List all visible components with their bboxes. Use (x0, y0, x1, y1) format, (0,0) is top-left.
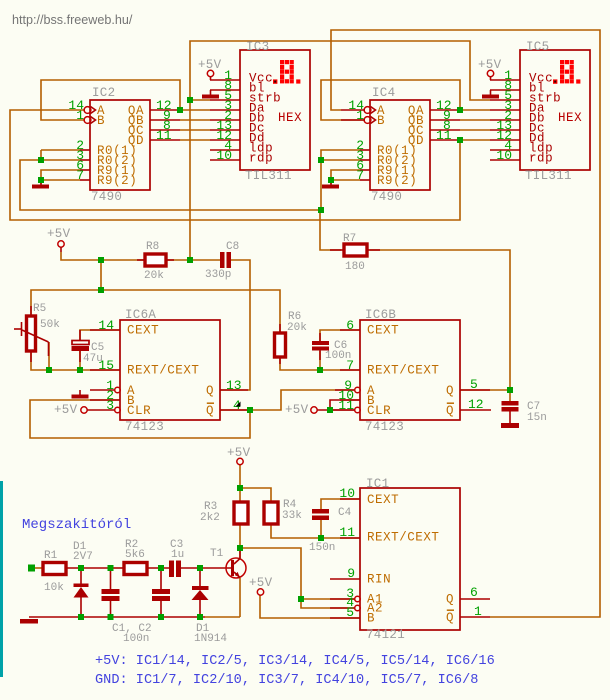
wire net input row y=568 (35, 567, 42, 569)
svg-text:7490: 7490 (371, 190, 402, 204)
IC4 pin numbers (348, 98, 451, 183)
wire net T1 collector trigger: R3 bottom, x=301, A1 A2 (239, 524, 241, 558)
wire net REXT IC6A: R5 bottom, wiper, C5, pin 15 (31, 352, 120, 370)
junction D1 top (197, 565, 203, 571)
svg-text:http://bss.freeweb.hu/: http://bss.freeweb.hu/ (12, 13, 133, 27)
wire R4 branch (240, 488, 271, 501)
svg-text:HEX: HEX (558, 111, 582, 125)
wire net bus y=290: R5 top to R6 top (31, 290, 280, 333)
IC2 pin B bubble and wedge (84, 117, 95, 124)
wire IC4 R0(1) seg (321, 150, 360, 210)
IC6B pin A bubble (355, 387, 361, 393)
wire row QB-Db left (180, 119, 210, 121)
zener diode D1 2V7 (73, 541, 93, 617)
resistor R1 10k (43, 550, 66, 594)
IC5 TIL311 (520, 40, 590, 183)
svg-text:10: 10 (496, 148, 512, 163)
+5V supply R3 R4 (227, 446, 251, 465)
IC3 7segment display (273, 60, 300, 84)
junction QD IC4 (457, 137, 463, 143)
svg-text:IC6A: IC6A (125, 308, 156, 322)
wire C1 node to R2 (110, 567, 123, 569)
capacitor C2 100n (152, 568, 170, 617)
svg-text:C8: C8 (226, 241, 239, 253)
junction IC2 R9 (38, 177, 44, 183)
wire R1 to zener (67, 567, 110, 569)
+5V supply IC1 B (249, 576, 273, 595)
svg-text:CEXT: CEXT (127, 324, 159, 338)
svg-text:B: B (97, 114, 105, 128)
junction C1 bottom (108, 614, 114, 620)
svg-text:10: 10 (339, 486, 355, 501)
IC3 pin stubs (210, 80, 240, 160)
svg-text:C4: C4 (338, 507, 352, 519)
svg-text:IC5: IC5 (526, 40, 549, 54)
svg-text:Q: Q (206, 384, 214, 398)
svg-text:9: 9 (347, 566, 355, 581)
wire IC2 R0(2) seg (41, 159, 80, 161)
capacitor C4 150n (309, 507, 352, 554)
svg-text:Q: Q (206, 404, 214, 418)
IC6A pin stubs (87, 330, 249, 410)
IC1 74121 (360, 477, 460, 642)
svg-text:10: 10 (216, 148, 232, 163)
wire C4 stem bottom (320, 520, 322, 538)
svg-text:7: 7 (356, 168, 364, 183)
svg-text:HEX: HEX (278, 111, 302, 125)
wire R8 to C8 (166, 259, 220, 261)
svg-text:Q: Q (446, 404, 454, 418)
svg-text:100n: 100n (123, 633, 149, 645)
junction IC6A Qbar (247, 407, 253, 413)
svg-text:20k: 20k (287, 322, 307, 334)
svg-text:+5V: +5V (54, 403, 78, 417)
svg-text:2V7: 2V7 (73, 551, 93, 563)
svg-text:T1: T1 (210, 548, 224, 560)
ground IC5 bl (482, 90, 499, 99)
svg-text:IC6B: IC6B (365, 308, 396, 322)
svg-text:13: 13 (226, 378, 242, 393)
junction IC6B Q C7 (507, 387, 513, 393)
IC1 pin stubs (330, 499, 490, 618)
wire net R6 bottom to IC6B REXT and C6 (280, 357, 360, 370)
svg-text:CLR: CLR (367, 404, 391, 418)
svg-text:rdp: rdp (249, 152, 273, 166)
+5V supply IC6A CLR (54, 403, 87, 417)
wire row QB-Db right (460, 119, 490, 121)
wire row QC-Dc left (180, 129, 210, 131)
ground C7 (501, 423, 519, 428)
junction C6 REXT (317, 367, 323, 373)
wire trigger to A1 A2 (240, 548, 330, 608)
IC4 pin A wire stub (341, 109, 365, 111)
svg-text:1: 1 (474, 604, 482, 619)
svg-text:10k: 10k (44, 582, 64, 594)
teal sidebar line (0, 481, 3, 677)
junction IC4 R0 (318, 157, 324, 163)
svg-text:R8: R8 (146, 241, 159, 253)
wire IC6B B branch (330, 400, 360, 410)
svg-text:+5V: +5V (285, 403, 309, 417)
wire IC6B CEXT to C6 top (320, 330, 360, 341)
svg-text:IC1: IC1 (366, 477, 389, 491)
svg-text:15: 15 (98, 358, 114, 373)
wire net IC6A.B loop to Q̄ (30, 400, 250, 438)
ground rail symbol (20, 619, 38, 624)
svg-text:CEXT: CEXT (367, 324, 399, 338)
svg-text:R9(2): R9(2) (377, 174, 417, 188)
wire A2 stub (330, 607, 355, 609)
svg-text:Q: Q (446, 611, 454, 625)
junction C4 REXT IC1 (318, 535, 324, 541)
junction QA IC2 (177, 107, 183, 113)
junction R5 wiper (46, 367, 52, 373)
wire IC2 R9 to ground (41, 170, 80, 184)
IC6B 74123 (360, 308, 460, 434)
resistor R8 20k (137, 241, 174, 282)
svg-text:QD: QD (408, 134, 424, 148)
wire net strb: x=190 vertical, bus y=41, x=470 down (190, 41, 490, 260)
wire IC4 R0(2) seg (321, 159, 360, 161)
svg-text:CLR: CLR (127, 404, 151, 418)
junction C5 REXT (77, 367, 83, 373)
junction zener top (78, 565, 84, 571)
junction QA IC4 (457, 107, 463, 113)
wire +5V branch x=101 (100, 260, 102, 290)
wire net IC4.QA=IC4.B: y=80 horizontal, x=321 down (321, 80, 460, 120)
svg-text:GND: IC1/7, IC2/10, IC3/7, IC4: GND: IC1/7, IC2/10, IC3/7, IC4/10, IC5/7… (95, 673, 478, 688)
svg-text:CEXT: CEXT (367, 493, 399, 507)
capacitor C6 100n (312, 333, 351, 362)
wire net IC2.QA=IC2.B: y=80 horizontal, x=41 down (41, 80, 180, 120)
IC5 pin numbers (496, 68, 512, 163)
wire net +5V to IC1.B (260, 595, 360, 618)
resistor R4 33k (264, 499, 302, 524)
resistor R7 180 (330, 233, 380, 273)
IC4 pin B wire stub (341, 119, 365, 121)
IC6B pin numbers (338, 318, 483, 413)
ground IC6A A pin (72, 390, 89, 399)
IC3 TIL311 (240, 40, 310, 183)
wire ground rail y=617 (29, 616, 205, 618)
wire net +5V row y=260: R8, C8 (61, 252, 144, 260)
ground IC2 R9 (32, 180, 49, 189)
IC6B pin stubs (332, 330, 491, 410)
wire net +5V to IC6B B and CLR (317, 409, 355, 411)
IC1 pin A1 bubble (355, 596, 361, 602)
svg-text:5: 5 (470, 377, 478, 392)
wire net C7 to ground (509, 390, 511, 401)
junction C2 bottom (158, 614, 164, 620)
IC6A pin CLR bubble (115, 407, 121, 413)
junction C1 top (108, 565, 114, 571)
wire A1 row (301, 598, 355, 600)
wire T1 emitter down (239, 578, 241, 617)
wire net IC1.Qbar to IC4.A : bus y=30, x=600 down, x=331 down (331, 30, 600, 617)
svg-text:+5V: IC1/14, IC2/5, IC3/14, IC: +5V: IC1/14, IC2/5, IC3/14, IC4/5, IC5/1… (95, 654, 495, 669)
wire C5 stem bottom (79, 351, 81, 370)
wire C3 to T1 base node (181, 567, 231, 569)
IC2 pin A bubble and wedge (84, 107, 95, 114)
ground IC4 R9 (322, 180, 339, 189)
wire IC2 R0(1) seg (41, 149, 80, 151)
input terminal Megszakitorol (28, 565, 35, 572)
junction IC6B CLR +5V (327, 407, 333, 413)
svg-text:3: 3 (106, 398, 114, 413)
svg-text:11: 11 (436, 128, 452, 143)
junction A1 trigger (298, 596, 304, 602)
svg-text:R5: R5 (33, 303, 46, 315)
resistor R6 20k (275, 311, 308, 364)
IC1 pin numbers (339, 486, 482, 620)
svg-text:1N914: 1N914 (194, 633, 227, 645)
IC1 pin A2 bubble (355, 605, 361, 611)
junction IC2 R0 (38, 157, 44, 163)
IC5 pin stubs (490, 80, 520, 160)
IC2 pin stubs left (80, 150, 90, 180)
svg-text:50k: 50k (40, 319, 60, 331)
svg-text:150n: 150n (309, 542, 335, 554)
svg-text:TIL311: TIL311 (245, 169, 292, 183)
IC4 pin stubs left (360, 150, 370, 180)
svg-text:REXT/CEXT: REXT/CEXT (127, 364, 199, 378)
svg-text:Q: Q (446, 384, 454, 398)
svg-text:20k: 20k (144, 270, 164, 282)
svg-text:7490: 7490 (91, 190, 122, 204)
svg-text:TIL311: TIL311 (525, 169, 572, 183)
IC4 pin stubs right (430, 110, 460, 140)
svg-text:B: B (377, 114, 385, 128)
IC2 pin stubs right (150, 110, 180, 140)
capacitor C1 100n (102, 568, 120, 617)
svg-text:+5V: +5V (47, 227, 71, 241)
IC6A pin A bubble (115, 387, 121, 393)
svg-text:R7: R7 (343, 233, 356, 245)
svg-text:14: 14 (98, 318, 114, 333)
svg-text:5k6: 5k6 (125, 549, 145, 561)
junction D1 bottom (197, 614, 203, 620)
wire IC2 R9(2) seg (41, 179, 80, 181)
svg-text:33k: 33k (282, 510, 302, 522)
capacitor C5 47u polarized (72, 330, 105, 365)
wire net IC1 CEXT to C4 top (321, 499, 360, 509)
svg-text:Megszakítóról: Megszakítóról (22, 517, 131, 533)
+5V supply R8 row (47, 227, 71, 252)
IC5 7segment display (553, 60, 580, 84)
IC2 7490 (90, 86, 150, 204)
svg-text:Q: Q (446, 593, 454, 607)
IC2 pin numbers (68, 98, 171, 183)
wire IC6A CEXT to C5 top (80, 330, 120, 341)
svg-text:IC2: IC2 (92, 86, 115, 100)
wire net strb IC3 branch (190, 99, 210, 101)
svg-text:5: 5 (346, 605, 354, 620)
resistor R3 2k2 (200, 501, 248, 524)
wire C6 stem bottom (319, 351, 321, 370)
wire R2 to C3 (148, 567, 169, 569)
svg-text:330p: 330p (205, 269, 231, 281)
junction strb IC3 (187, 97, 193, 103)
wire row QC-Dc right (460, 129, 490, 131)
+5V supply IC5 (478, 58, 502, 80)
svg-text:11: 11 (339, 525, 355, 540)
svg-text:7: 7 (76, 168, 84, 183)
svg-text:B: B (367, 612, 375, 626)
svg-text:IC4: IC4 (372, 86, 395, 100)
resistor R2 5k6 (124, 539, 147, 575)
+5V supply IC3 (198, 58, 222, 80)
svg-text:REXT/CEXT: REXT/CEXT (367, 531, 439, 545)
junction R3 T1 collector (237, 545, 243, 551)
svg-text:11: 11 (338, 398, 354, 413)
svg-text:180: 180 (345, 261, 365, 273)
junction +5V y290 (98, 287, 104, 293)
wire C8 to IC6A.Q x=250 (220, 260, 250, 390)
svg-text:6: 6 (470, 585, 478, 600)
wire row QA-Da left (180, 109, 210, 111)
svg-text:15n: 15n (527, 412, 547, 424)
wire IC4 R9(2) seg (331, 179, 360, 181)
IC6A pin numbers (98, 318, 241, 413)
svg-text:7: 7 (346, 358, 354, 373)
IC6B pin CLR bubble (355, 407, 361, 413)
wire R5 wiper down (48, 342, 50, 370)
potentiometer R5 50k (14, 303, 60, 362)
transistor T1 (210, 548, 246, 578)
ground IC3 bl (202, 90, 219, 99)
wire row QD-Dd right (460, 139, 490, 141)
diode D1 1N914 (192, 568, 228, 645)
svg-text:+5V: +5V (249, 576, 273, 590)
IC4 pin A bubble and wedge (364, 107, 375, 114)
junction +5V R8 (98, 257, 104, 263)
wire net +5V R3 R4 (239, 465, 241, 501)
IC3 pin numbers (216, 68, 232, 163)
svg-text:1u: 1u (171, 549, 184, 561)
junction strb R8C8 (187, 257, 193, 263)
wire net R7 right to IC6B.Q and C7 (370, 250, 510, 390)
svg-text:2k2: 2k2 (200, 512, 220, 524)
svg-text:74123: 74123 (365, 420, 404, 434)
junction IC4 R9 (328, 177, 334, 183)
wire net R4 bottom to C4 bottom and REXT IC1 (271, 524, 360, 538)
svg-text:R1: R1 (44, 550, 58, 562)
wire row QA-Da right (460, 109, 490, 111)
svg-text:QD: QD (128, 134, 144, 148)
junction C2 top (158, 565, 164, 571)
wire IC4 R9 to ground (331, 170, 360, 184)
svg-text:R9(2): R9(2) (97, 174, 137, 188)
junction reset bus (318, 207, 324, 213)
svg-text:1: 1 (356, 108, 364, 123)
svg-text:1: 1 (76, 108, 84, 123)
svg-text:rdp: rdp (529, 152, 553, 166)
svg-text:74121: 74121 (366, 628, 405, 642)
wire net IC2.A from IC4.QD: x=10, bus y=220, x=460 (10, 110, 460, 220)
+5V supply IC6B (285, 403, 317, 417)
capacitor C7 15n (502, 401, 547, 424)
svg-text:74123: 74123 (125, 420, 164, 434)
capacitor C8 330p (205, 241, 239, 281)
svg-text:12: 12 (468, 397, 484, 412)
junction +5V R3 R4 (237, 485, 243, 491)
wire net IC6A.Qbar to IC6B.A (250, 390, 355, 410)
svg-text:11: 11 (156, 128, 172, 143)
svg-text:6: 6 (346, 318, 354, 333)
svg-text:RIN: RIN (367, 573, 391, 587)
svg-text:REXT/CEXT: REXT/CEXT (367, 364, 439, 378)
wire row QD-Dd left (180, 139, 210, 141)
IC6A 74123 (120, 308, 220, 434)
IC4 pin B bubble and wedge (364, 117, 375, 124)
IC4 7490 (370, 86, 430, 204)
wire net R0 reset bus: IC2 R0 pins, y=210 bus, IC4 R0 pins, R7 (20, 150, 341, 250)
svg-text:IC3: IC3 (246, 40, 269, 54)
capacitor C3 1u (169, 539, 184, 577)
junction zener bottom (78, 614, 84, 620)
